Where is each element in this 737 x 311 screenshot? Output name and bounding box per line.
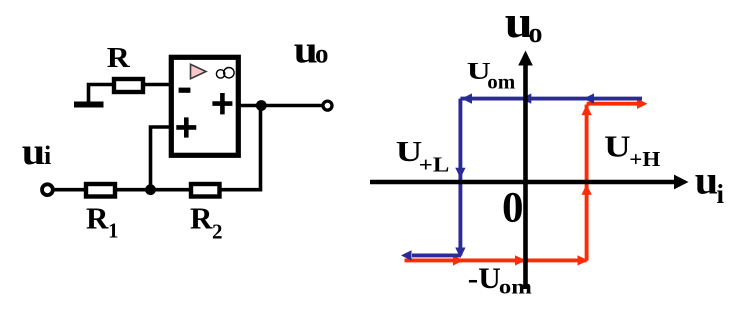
svg-text:om: om xyxy=(499,275,533,299)
svg-text:R: R xyxy=(107,43,131,74)
arrowhead red right at bottom-right corner xyxy=(578,255,589,265)
svg-text:1: 1 xyxy=(108,219,119,243)
arrowhead blue left at top-left corner xyxy=(462,93,473,103)
svg-text:u: u xyxy=(22,131,46,173)
label u_o (axis) xyxy=(505,0,543,49)
label R_1 xyxy=(86,201,119,243)
svg-text:i: i xyxy=(717,179,725,209)
label U_+L xyxy=(396,136,450,177)
op-amp non-inverting input '+' xyxy=(176,117,196,137)
svg-text:R: R xyxy=(86,201,109,236)
wire op-amp output to terminal xyxy=(238,104,322,108)
op-amp inverting input '-' xyxy=(179,88,191,93)
wire R2 to output node xyxy=(220,106,261,190)
svg-text:i: i xyxy=(44,141,51,170)
wire: red vertical segment at U+H xyxy=(585,105,589,261)
wire R to op-amp inverting input xyxy=(143,83,172,87)
wire input terminal to R1 xyxy=(53,188,85,192)
arrowhead blue down at x-axis xyxy=(455,168,465,179)
arrowhead blue left at red vertical xyxy=(584,93,595,103)
svg-text:o: o xyxy=(315,39,329,69)
red hysteresis branch (increasing input) xyxy=(405,99,648,266)
label u_i (axis) xyxy=(695,158,725,210)
axis u_o (vertical) xyxy=(518,51,533,290)
label U_om xyxy=(467,59,516,94)
label R_2 xyxy=(190,201,223,244)
node B (output junction) xyxy=(256,100,267,111)
resistor R1 xyxy=(86,184,115,197)
wire: blue bottom segment at -Uom xyxy=(412,253,460,257)
wire: blue top segment at +Uom xyxy=(460,97,642,101)
wire R to ground xyxy=(89,85,115,103)
label U_+H xyxy=(604,129,660,172)
axis u_i (horizontal) xyxy=(370,175,689,190)
wire R1 to R2 xyxy=(115,188,190,192)
arrowhead red right at blue vertical xyxy=(453,255,464,265)
op-amp output '+' xyxy=(212,93,232,114)
label -U_om xyxy=(468,262,533,299)
arrowhead blue left at y-axis xyxy=(521,93,532,103)
wire: red bottom segment at -Uom xyxy=(405,258,587,262)
arrowhead red right at top end xyxy=(637,99,648,109)
op-amp triangle symbol xyxy=(191,64,207,78)
svg-text:R: R xyxy=(190,201,213,236)
wire: blue vertical segment at U+L xyxy=(458,99,462,256)
label u_i (input voltage) xyxy=(22,131,51,173)
label u_o (output voltage) xyxy=(294,29,329,72)
resistor R (feedback) xyxy=(114,79,143,92)
blue hysteresis branch (decreasing input) xyxy=(401,93,642,260)
wire: red top segment at +Uom xyxy=(587,102,640,106)
arrowhead red up at x-axis xyxy=(581,184,591,195)
svg-text:2: 2 xyxy=(212,220,223,244)
input terminal xyxy=(42,184,53,195)
arrowhead red up at top corner xyxy=(581,105,591,116)
svg-text:u: u xyxy=(695,158,719,203)
svg-text:U: U xyxy=(604,129,631,164)
ground xyxy=(74,102,104,108)
arrowhead blue left at bottom end xyxy=(401,250,412,260)
resistor R2 xyxy=(191,184,220,197)
svg-text:o: o xyxy=(529,18,543,49)
svg-text:-U: -U xyxy=(468,262,501,295)
svg-text:om: om xyxy=(487,70,516,94)
arrowhead blue down at bottom corner xyxy=(455,248,465,259)
op-amp U1 body xyxy=(171,57,238,155)
wire junction to op-amp + input xyxy=(151,127,175,190)
node A (junction at R1/R2) xyxy=(145,184,156,195)
op-amp infinity (ideal gain) symbol xyxy=(216,68,234,79)
arrowhead red right at y-axis xyxy=(515,255,526,265)
output terminal xyxy=(323,101,332,110)
svg-text:+L: +L xyxy=(419,153,450,177)
svg-text:0: 0 xyxy=(502,185,524,232)
svg-text:+H: +H xyxy=(629,147,660,171)
